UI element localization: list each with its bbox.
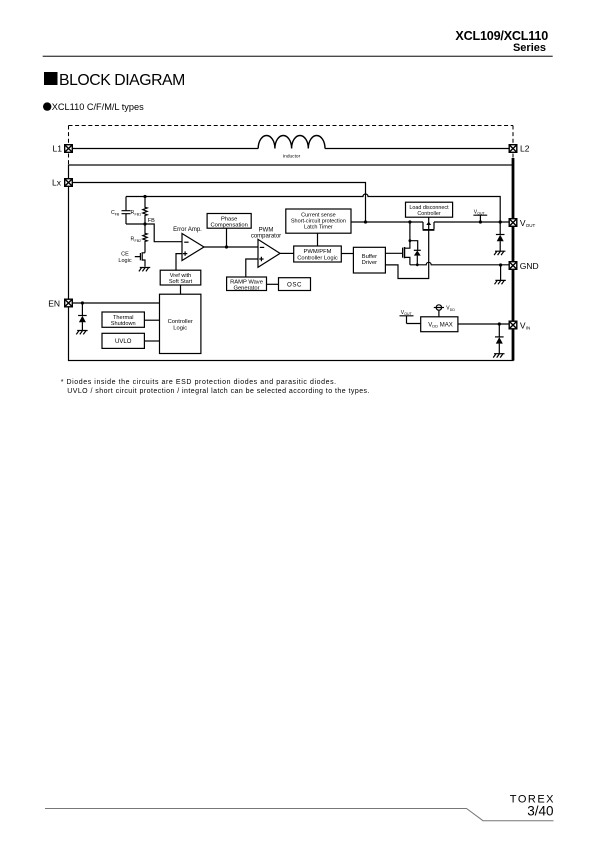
svg-text:Vref with: Vref with <box>170 273 192 279</box>
node sense/RC top <box>143 195 146 198</box>
svg-text:BLOCK DIAGRAM: BLOCK DIAGRAM <box>59 72 185 89</box>
wire EN to controller logic <box>73 302 160 304</box>
wire output rail to VOUT pin <box>434 221 509 223</box>
node sense line join <box>499 220 502 223</box>
terminal VOUT at VDD MAX <box>400 316 421 324</box>
wire pwm/pfm to buffer <box>341 253 353 255</box>
diode NMOS body diode <box>410 241 421 265</box>
svg-text:Error Amp.: Error Amp. <box>173 227 202 233</box>
resistor RFB2 <box>143 224 147 253</box>
wire switching rail (current sense to PMOS) <box>351 221 423 223</box>
node FB <box>143 222 146 225</box>
capacitor CFB <box>125 197 127 211</box>
svg-text:OUT: OUT <box>526 223 536 228</box>
svg-text:Latch Timer: Latch Timer <box>304 225 333 231</box>
ground (GND pin) <box>495 280 506 284</box>
diode ESD at EN <box>78 303 87 331</box>
pin GND <box>509 262 517 270</box>
svg-text:OUT: OUT <box>404 312 412 316</box>
ground (CE switch) <box>139 268 150 272</box>
svg-text:Series: Series <box>513 42 546 54</box>
thick right bus <box>512 158 515 361</box>
svg-text:FB1: FB1 <box>135 212 142 216</box>
pin L2 <box>509 145 517 153</box>
node EN diode branch <box>81 301 84 304</box>
ground (EN ESD) <box>76 331 87 335</box>
block thermal shutdown <box>102 312 144 327</box>
dashed external inductor box <box>69 126 514 166</box>
svg-text:Inductor: Inductor <box>283 153 301 159</box>
block OSC <box>279 278 311 291</box>
diode ESD at VIN <box>495 324 504 354</box>
wire phase comp to output <box>226 228 228 247</box>
svg-text:FB2: FB2 <box>135 239 142 243</box>
footnote <box>61 379 370 395</box>
block vref soft start <box>160 270 201 285</box>
svg-text:DD: DD <box>432 324 438 329</box>
svg-text:Controller: Controller <box>168 319 193 325</box>
transistor load disconnect PMOS <box>423 217 435 230</box>
node GND stub <box>499 263 502 266</box>
section heading <box>44 72 185 89</box>
wire ramp-osc <box>267 283 279 285</box>
wire comparator output <box>280 252 294 254</box>
op-amp error amplifier <box>182 234 204 261</box>
pin VIN <box>509 321 517 329</box>
wire Lx to switching node <box>73 183 366 223</box>
terminal VOUT sense <box>473 215 487 222</box>
transistor CE logic switch <box>135 252 145 267</box>
svg-text:Controller Logic: Controller Logic <box>297 255 338 261</box>
block RAMP wave generator <box>227 277 267 291</box>
svg-text:L1: L1 <box>53 144 63 154</box>
svg-text:Controller: Controller <box>417 211 441 217</box>
node drain branch <box>408 220 411 223</box>
wire ramp to comparator + <box>246 259 258 278</box>
svg-text:FB: FB <box>115 212 120 216</box>
pin VOUT <box>509 219 517 227</box>
svg-text:comparator: comparator <box>251 234 281 240</box>
svg-text:IN: IN <box>526 326 531 331</box>
svg-text:PWM: PWM <box>259 227 274 233</box>
terminal VDD <box>434 305 444 317</box>
ground (VIN ESD) <box>493 354 504 358</box>
wire NMOS source to GND pin with hop over PMOS gate line <box>410 262 509 265</box>
wire current sense to pwm/pfm logic <box>317 233 319 246</box>
wire inductor to L2 <box>325 148 509 150</box>
ground (VOUT ESD) <box>494 251 505 255</box>
block UVLO <box>102 333 144 348</box>
node VIN diode branch <box>498 322 501 325</box>
header rule <box>43 55 553 57</box>
node phase comp tap <box>225 245 228 248</box>
svg-text:XCL110 C/F/M/L types: XCL110 C/F/M/L types <box>52 102 144 112</box>
IC outline box <box>69 165 514 361</box>
wire gnd stub <box>500 265 502 280</box>
op-amp PWM comparator <box>258 239 280 267</box>
pin EN <box>65 299 73 307</box>
svg-text:Logic: Logic <box>173 326 187 332</box>
svg-text:Buffer: Buffer <box>362 254 377 260</box>
svg-text:Logic: Logic <box>118 258 131 264</box>
block buffer driver <box>353 247 385 273</box>
wire uvlo to controller <box>144 340 159 342</box>
svg-text:Thermal: Thermal <box>113 315 134 321</box>
svg-text:GND: GND <box>520 261 539 271</box>
svg-text:MAX: MAX <box>440 323 453 329</box>
svg-text:UVLO / short circuit protectio: UVLO / short circuit protection / integr… <box>67 388 370 395</box>
svg-text:* Diodes inside the circuits a: * Diodes inside the circuits are ESD pro… <box>61 379 337 386</box>
wire thermal to controller <box>144 319 159 321</box>
footer rule <box>45 809 554 821</box>
wire FB to error amp inverting input <box>145 224 182 242</box>
svg-text:OUT: OUT <box>477 212 485 216</box>
svg-text:Lx: Lx <box>52 178 62 188</box>
wire error amp output <box>204 246 258 248</box>
logo TOREX <box>510 794 555 819</box>
wire L1 to inductor <box>73 148 258 150</box>
wire vref to error amp + <box>176 254 182 271</box>
node Lx junction <box>364 220 367 223</box>
svg-text:Compensation: Compensation <box>211 222 248 228</box>
transistor driver NMOS <box>403 222 410 265</box>
svg-text:Driver: Driver <box>362 260 378 266</box>
pin L1 <box>65 145 73 153</box>
wire vdd max to VIN <box>458 323 509 325</box>
block load disconnect controller <box>406 202 453 217</box>
svg-text:Soft Start: Soft Start <box>169 279 193 285</box>
svg-text:Shutdown: Shutdown <box>111 321 136 327</box>
svg-text:DD: DD <box>450 308 456 312</box>
resistor RFB1 <box>143 197 147 225</box>
svg-text:UVLO: UVLO <box>115 339 132 345</box>
svg-text:EN: EN <box>48 298 60 308</box>
svg-text:Generator: Generator <box>233 285 259 291</box>
pin Lx <box>65 179 73 187</box>
block current sense <box>286 209 351 233</box>
block controller logic <box>160 294 201 353</box>
subsection bullet <box>43 102 144 112</box>
svg-text:CE: CE <box>121 252 129 258</box>
svg-text:FB: FB <box>148 218 155 224</box>
header title <box>455 29 548 54</box>
svg-text:PWM/PFM: PWM/PFM <box>303 249 331 255</box>
svg-text:OSC: OSC <box>287 282 302 289</box>
block VDD MAX <box>421 317 458 332</box>
wire vref to controller <box>180 285 182 294</box>
svg-text:L2: L2 <box>520 144 530 154</box>
block phase compensation <box>207 214 251 229</box>
inductor <box>258 135 325 148</box>
svg-text:3/40: 3/40 <box>527 803 553 818</box>
diode ESD at VOUT <box>496 222 505 251</box>
wire buffer to NMOS gate <box>385 252 402 254</box>
block PWM/PFM controller logic <box>294 246 342 262</box>
svg-text:XCL109/XCL110: XCL109/XCL110 <box>455 29 548 43</box>
wire buffer lower output to PMOS gate <box>385 230 428 278</box>
wire VOUT sense line with hop over Lx drop <box>126 194 500 222</box>
